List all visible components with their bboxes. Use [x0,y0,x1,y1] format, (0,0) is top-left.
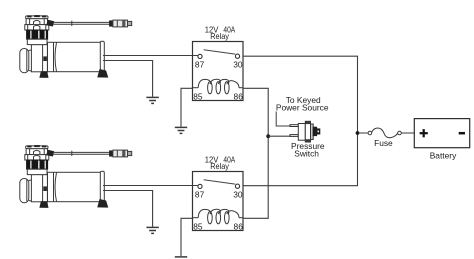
upper blade terminal [290,125,298,127]
relay U1 box [193,42,244,101]
wire: compressor M2 motor lead to relay U2 pin 87 [103,185,198,187]
svg-text:85: 85 [193,221,203,231]
fuse right terminal circle [398,131,402,135]
stud (dark) [313,127,316,135]
lower blade terminal [290,135,298,137]
ground: compressor M2 [146,227,158,233]
wire: keyed power leader to pressure switch upper terminal [276,112,290,127]
node: +12V bus fuse tap junction [356,131,360,135]
relay U2 coil [193,209,244,224]
fuse lead from bus [359,132,368,134]
wire: +12V bus to relay U2 pin 30 [243,133,358,186]
svg-text:85: 85 [193,91,203,101]
svg-text:87: 87 [195,59,205,69]
battery negative terminal mark [459,132,465,135]
wire: compressor M1 motor lead to relay U1 pin 87 [103,55,198,57]
switch body [298,124,305,141]
compressor M1 (top) [20,15,132,77]
relay U1 coil [193,79,244,94]
svg-text:Relay: Relay [210,161,230,171]
node: pressure switch junction [266,134,270,138]
wire: compressor M2 ground lead [103,191,153,227]
svg-text:30: 30 [233,59,243,69]
svg-text:Relay: Relay [210,31,230,41]
ground: relay U1 pin 85 [175,127,187,133]
relay U1 pin 87 terminal [198,54,202,58]
svg-text:Switch: Switch [294,148,319,158]
wire: compressor M1 ground lead [103,61,153,97]
wire: pressure switch node to relay U2 pin 86 [243,136,268,218]
svg-text:Battery: Battery [430,151,457,161]
svg-text:30: 30 [233,189,243,199]
compressor M2 (bottom) [20,145,132,207]
wire: relay U2 pin 85 to ground [181,218,193,256]
svg-text:86: 86 [234,221,244,231]
svg-text:86: 86 [234,91,244,101]
relay U2 pin 30 terminal [235,184,239,188]
battery positive terminal mark [420,129,428,137]
fuse left terminal circle [368,131,372,135]
wire: node to pressure switch lower terminal [268,135,290,137]
relay U1 pin 30 terminal [235,54,239,58]
svg-text:87: 87 [195,189,205,199]
second ring [311,124,314,140]
ground: compressor M1 [146,97,158,103]
pressure switch PS1 [290,121,320,142]
fuse lead to battery [401,132,414,134]
fuse F1 [359,128,414,138]
relay U2 box [193,172,244,231]
relay U2 pin 87 terminal [198,184,202,188]
svg-text:Fuse: Fuse [374,138,393,148]
wire: relay U1 pin 30 to +12V bus [243,56,358,133]
relay U1 switch blade [204,50,236,54]
svg-text:Power Source: Power Source [276,103,329,113]
wire: relay U1 pin 86 to pressure switch node [243,88,268,136]
relay U2 switch blade [204,180,236,184]
hex ring [305,121,310,142]
wire: relay U1 pin 85 to ground [181,88,193,127]
battery BT1 box [414,119,469,148]
ground: relay U2 pin 85 [175,257,187,259]
fuse element squiggle [372,128,398,138]
